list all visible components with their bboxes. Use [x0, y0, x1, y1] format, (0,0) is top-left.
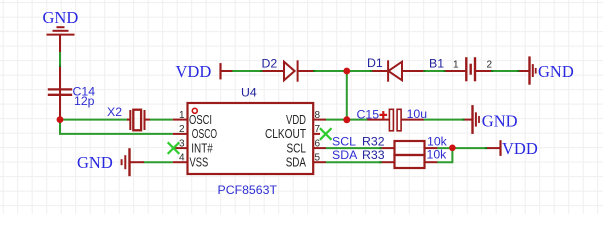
svg-text:C15: C15 — [357, 108, 380, 122]
svg-text:VDD: VDD — [286, 113, 306, 127]
svg-text:5: 5 — [315, 152, 321, 163]
svg-text:OSCO: OSCO — [192, 127, 217, 141]
svg-text:6: 6 — [315, 138, 321, 149]
svg-text:10k: 10k — [427, 134, 448, 148]
svg-text:SDA: SDA — [332, 148, 358, 162]
svg-text:GND: GND — [538, 62, 574, 81]
svg-text:D1: D1 — [367, 56, 383, 70]
svg-text:4: 4 — [179, 152, 185, 163]
svg-text:R33: R33 — [362, 148, 385, 162]
svg-text:2: 2 — [179, 124, 185, 135]
svg-text:B1: B1 — [429, 57, 444, 71]
svg-text:12p: 12p — [74, 94, 95, 108]
svg-text:GND: GND — [77, 153, 113, 172]
svg-text:U4: U4 — [241, 85, 257, 99]
svg-text:SCL: SCL — [287, 141, 307, 155]
svg-text:GND: GND — [43, 8, 79, 27]
svg-text:CLKOUT: CLKOUT — [265, 127, 306, 141]
svg-text:OSCI: OSCI — [189, 113, 212, 127]
svg-text:8: 8 — [315, 110, 321, 121]
svg-text:D2: D2 — [262, 56, 278, 70]
svg-text:3: 3 — [179, 138, 185, 149]
svg-text:2: 2 — [487, 60, 493, 71]
svg-text:VSS: VSS — [190, 156, 209, 170]
svg-text:7: 7 — [315, 124, 321, 135]
svg-text:VDD: VDD — [176, 62, 212, 81]
svg-text:VDD: VDD — [502, 139, 538, 158]
svg-text:10k: 10k — [427, 148, 448, 162]
svg-text:R32: R32 — [362, 134, 385, 148]
svg-text:GND: GND — [482, 111, 518, 130]
svg-text:10u: 10u — [407, 107, 428, 121]
svg-text:SCL: SCL — [332, 134, 356, 148]
svg-text:1: 1 — [453, 60, 459, 71]
svg-text:SDA: SDA — [286, 156, 307, 170]
svg-text:PCF8563T: PCF8563T — [218, 183, 278, 197]
svg-text:INT#: INT# — [191, 141, 213, 155]
svg-text:X2: X2 — [107, 105, 122, 119]
svg-text:1: 1 — [179, 110, 185, 121]
